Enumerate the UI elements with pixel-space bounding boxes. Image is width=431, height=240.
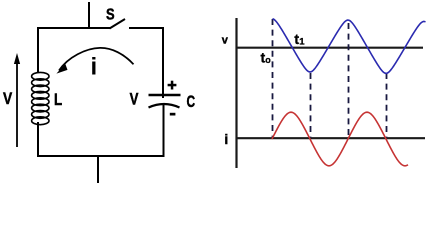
voltage arrow V left — [14, 53, 20, 147]
wire right vertical top (to capacitor plus plate) — [162, 27, 164, 98]
label V capacitor voltage — [130, 90, 139, 108]
dashed marker line at second v trough — [386, 73, 388, 138]
svg-text:v: v — [222, 35, 229, 47]
label plus polarity — [168, 81, 177, 90]
label t1 — [294, 31, 305, 48]
wire left vertical top (switch node to inductor) — [37, 27, 39, 73]
svg-text:i: i — [91, 54, 98, 81]
svg-text:1: 1 — [299, 37, 305, 48]
dashed marker line at first v trough — [310, 73, 312, 138]
capacitor C curved plate — [149, 104, 180, 108]
graph i axis horizontal — [236, 137, 425, 139]
label v graph voltage axis — [222, 35, 229, 47]
svg-text:C: C — [187, 92, 196, 111]
waveform v blue cosine — [273, 19, 426, 74]
dashed marker line at t0 — [272, 19, 274, 138]
svg-text:V: V — [3, 89, 13, 108]
svg-text:L: L — [54, 90, 62, 109]
label L — [54, 90, 62, 109]
wire top rail right segment — [129, 27, 164, 29]
label S — [106, 7, 115, 24]
wire left vertical bottom (inductor to bottom rail) — [37, 122, 39, 157]
label minus polarity — [170, 113, 176, 116]
svg-text:S: S — [106, 7, 115, 24]
svg-text:i: i — [224, 131, 228, 147]
capacitor C top plate — [149, 94, 181, 96]
svg-text:o: o — [265, 55, 271, 65]
inductor L coil — [32, 72, 49, 124]
wire bottom terminal stub — [97, 156, 99, 183]
label i graph current axis — [224, 131, 228, 147]
wire right vertical bottom (capacitor minus plate to bottom rail) — [163, 104, 165, 157]
graph v axis horizontal — [236, 47, 423, 49]
svg-text:V: V — [130, 90, 139, 108]
graph vertical axis — [235, 18, 237, 168]
label t0 — [261, 50, 272, 66]
waveform i red sine — [272, 112, 408, 166]
dashed marker line at second v peak — [348, 23, 350, 138]
wire bottom rail — [37, 155, 164, 157]
current arrow i curved — [56, 48, 133, 74]
label i circuit current — [91, 54, 98, 81]
label V inductor voltage — [3, 89, 13, 108]
switch S blade — [110, 19, 126, 29]
wire top terminal stub — [88, 2, 90, 29]
wire top rail left segment — [37, 27, 110, 29]
label C — [187, 92, 196, 111]
